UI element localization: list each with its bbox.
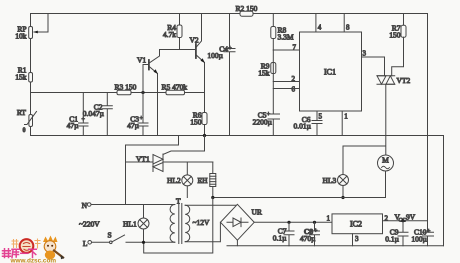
wire IC1 pin8 xyxy=(344,14,350,33)
svg-text:HL1: HL1 xyxy=(123,220,137,229)
wire Vcc 9V xyxy=(383,213,428,224)
capacitor C8 xyxy=(300,221,320,246)
node A (R3/C3/V1 base junction) xyxy=(141,91,144,94)
svg-text:1: 1 xyxy=(344,113,348,121)
thyristor gate step wire xyxy=(126,136,179,205)
wire mid horizontal (R1 junction to R6 column) xyxy=(31,92,205,94)
wire load return to mains xyxy=(144,198,213,254)
svg-text:RT: RT xyxy=(17,108,27,117)
capacitor C7 xyxy=(273,221,294,246)
wire neutral xyxy=(91,204,175,206)
wire VT1 output to loads xyxy=(163,161,213,163)
svg-text:15k: 15k xyxy=(258,69,270,78)
terminal L xyxy=(83,239,92,248)
capacitor C4 xyxy=(207,14,235,136)
resistor R5 xyxy=(162,83,188,95)
svg-text:www.dzsc.com: www.dzsc.com xyxy=(10,258,57,263)
node HL3 bottom junction xyxy=(341,196,344,199)
switch S xyxy=(92,231,175,244)
svg-text:θ: θ xyxy=(23,128,26,134)
capacitor C5 xyxy=(253,50,280,136)
svg-text:2: 2 xyxy=(292,75,296,83)
svg-text:4: 4 xyxy=(318,24,322,32)
transistor V1 xyxy=(137,50,160,136)
svg-text:M: M xyxy=(382,156,389,165)
svg-text:150: 150 xyxy=(190,118,202,127)
wire top rail xyxy=(31,13,428,15)
svg-text:4.7k: 4.7k xyxy=(163,30,176,39)
IC2 regulator box xyxy=(327,214,389,234)
lamp HL2 xyxy=(167,162,193,198)
svg-text:R2 150: R2 150 xyxy=(236,4,258,13)
svg-text:V2: V2 xyxy=(190,36,199,45)
heater EH xyxy=(198,162,216,198)
svg-text:8: 8 xyxy=(346,24,350,32)
svg-text:5: 5 xyxy=(319,113,323,121)
lamp HL1 xyxy=(123,205,149,243)
wire secondary top to UR xyxy=(185,204,237,206)
capacitor C1 xyxy=(67,93,88,136)
svg-text:47µ: 47µ xyxy=(67,121,80,130)
wire UR positive output to IC2 xyxy=(254,221,332,223)
thermistor RT xyxy=(17,108,37,134)
wire load return rail xyxy=(213,197,386,199)
resistor R7 xyxy=(389,14,406,76)
svg-text:0.1µ: 0.1µ xyxy=(385,235,399,244)
svg-text:100µ: 100µ xyxy=(411,235,427,244)
resistor R1 xyxy=(15,66,32,83)
node R6 bottom / VT1 MT2 junction xyxy=(203,134,206,137)
svg-text:47µ: 47µ xyxy=(127,121,140,130)
resistor R9 xyxy=(258,62,276,78)
watermark logo xyxy=(3,236,65,263)
svg-text:3: 3 xyxy=(363,50,367,58)
wire IC1 pin4 xyxy=(316,14,322,33)
svg-text:IC1: IC1 xyxy=(324,68,336,77)
svg-text:9V: 9V xyxy=(406,213,416,222)
svg-text:7: 7 xyxy=(293,44,297,52)
resistor R3 xyxy=(115,83,137,95)
capacitor C10 xyxy=(411,221,433,246)
wire IC1 pin7 xyxy=(273,49,299,51)
svg-text:L: L xyxy=(83,239,88,248)
wire IC1 pin2 xyxy=(273,81,299,83)
wire IC1 pin1 xyxy=(342,111,348,136)
resistor R8 xyxy=(271,14,294,51)
lamp HL3 xyxy=(323,175,349,198)
svg-text:HL2: HL2 xyxy=(167,176,181,185)
svg-text:R5 470k: R5 470k xyxy=(162,83,188,92)
svg-text:VT1: VT1 xyxy=(136,155,150,164)
svg-text:EH: EH xyxy=(198,176,209,185)
svg-text:~12V: ~12V xyxy=(193,218,211,227)
resistor R2 xyxy=(236,4,258,16)
svg-text:~220V: ~220V xyxy=(79,220,100,229)
resistor R6 xyxy=(190,111,207,136)
svg-text:V1: V1 xyxy=(137,56,146,65)
svg-text:VT2: VT2 xyxy=(397,76,411,85)
svg-text:2200µ: 2200µ xyxy=(253,118,273,127)
svg-text:N: N xyxy=(82,201,88,210)
wire right outer rail xyxy=(443,136,445,246)
terminal N xyxy=(82,201,91,210)
svg-text:0.047µ: 0.047µ xyxy=(83,109,105,118)
svg-text:UR: UR xyxy=(252,208,262,217)
svg-text:+: + xyxy=(228,46,232,52)
svg-text:HL3: HL3 xyxy=(323,176,337,185)
svg-text:10k: 10k xyxy=(15,32,27,41)
wire IC1 pin6 xyxy=(273,88,299,90)
wire left vertical rail xyxy=(30,14,32,136)
svg-text:IC2: IC2 xyxy=(350,220,362,229)
op-amp IC1 (timer box) xyxy=(292,32,362,111)
node HL1 bottom junction xyxy=(142,241,145,244)
svg-text:1: 1 xyxy=(327,215,331,223)
wire IC1 pin3 to VT2 xyxy=(362,50,385,76)
wire bottom rail of upper section xyxy=(31,135,444,137)
svg-text:6: 6 xyxy=(292,86,296,94)
motor M xyxy=(378,155,394,198)
wire HL3 branch xyxy=(343,146,386,175)
svg-text:R3 150: R3 150 xyxy=(115,83,137,92)
svg-text:0.01µ: 0.01µ xyxy=(294,122,312,131)
triac VT2 xyxy=(377,76,410,155)
capacitor C9 xyxy=(385,219,408,246)
wire V1 collector to V2 base xyxy=(160,49,196,51)
svg-text:T: T xyxy=(176,197,181,206)
wire right supply vertical xyxy=(427,14,429,221)
resistor R4 xyxy=(163,14,182,50)
svg-text:150: 150 xyxy=(389,31,401,40)
potentiometer RP xyxy=(15,14,48,41)
svg-text:3.3M: 3.3M xyxy=(278,33,294,42)
bridge rectifier UR xyxy=(221,204,262,245)
wire secondary bottom to UR xyxy=(185,222,220,241)
svg-text:0.1µ: 0.1µ xyxy=(273,234,287,243)
svg-text:15k: 15k xyxy=(15,73,27,82)
svg-text:3: 3 xyxy=(355,235,359,243)
triac VT1 xyxy=(126,136,205,172)
wire IC2 pin3 to ground xyxy=(353,234,360,246)
transistor V2 xyxy=(190,14,205,113)
transformer T xyxy=(170,197,210,244)
svg-text:2: 2 xyxy=(385,215,389,223)
node EH bottom junction xyxy=(211,196,214,199)
capacitor C2 xyxy=(83,93,113,136)
svg-text:100µ: 100µ xyxy=(207,51,223,60)
capacitor C6 on IC1 pin5 xyxy=(294,111,323,136)
svg-text:S: S xyxy=(108,231,112,240)
svg-text:470µ: 470µ xyxy=(300,234,316,243)
capacitor C3 xyxy=(127,93,148,136)
wire DC ground rail xyxy=(227,245,444,247)
